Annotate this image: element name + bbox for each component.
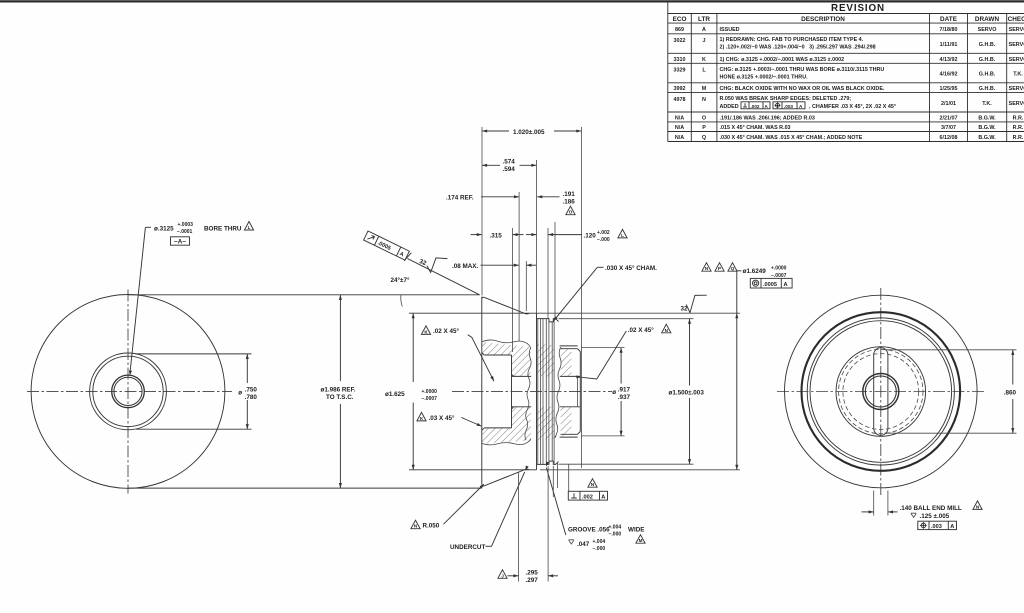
slot top ball end — [874, 348, 888, 355]
svg-text:M: M — [639, 538, 643, 543]
cylinder dia 1.625 top line + extension — [409, 312, 537, 314]
svg-text:ø1.625: ø1.625 — [385, 391, 405, 398]
svg-text:.02 X 45°: .02 X 45° — [628, 326, 654, 334]
dimension dia 1.625 left — [385, 313, 437, 470]
svg-text:−A−: −A− — [174, 238, 186, 245]
extension lines above section — [482, 127, 581, 468]
svg-text:ø1.986 REF.: ø1.986 REF. — [321, 387, 356, 394]
svg-text:A: A — [950, 524, 954, 530]
svg-text:O: O — [702, 116, 706, 122]
svg-text:.015 X 45° CHAM. WAS R.03: .015 X 45° CHAM. WAS R.03 — [720, 125, 791, 131]
bore lines left body — [512, 375, 532, 377]
svg-text:GROOVE .056: GROOVE .056 — [568, 527, 610, 534]
svg-text:N: N — [702, 97, 706, 103]
dimension dia 1.500 — [559, 319, 705, 465]
right view bore chamfer circle — [863, 374, 899, 410]
svg-text:ø1.500±.003: ø1.500±.003 — [669, 390, 705, 397]
slot right edge — [887, 355, 889, 428]
chamfer callout .02 X 45 left — [421, 326, 495, 382]
svg-text:K: K — [702, 57, 706, 63]
svg-text:3992: 3992 — [674, 86, 686, 92]
svg-text:.780: .780 — [245, 394, 258, 401]
flange left face x=536.5 — [536, 313, 538, 470]
svg-text:LTR: LTR — [698, 16, 710, 23]
svg-text:−.000: −.000 — [597, 237, 610, 243]
left view vertical centerline — [127, 290, 129, 494]
svg-text:.08 MAX.: .08 MAX. — [452, 263, 478, 270]
svg-text:P: P — [702, 125, 706, 131]
svg-text:G.H.B.: G.H.B. — [979, 42, 996, 48]
svg-text:.594: .594 — [503, 166, 516, 173]
svg-text:.030 X 45° CHAM. WAS .015 X 45: .030 X 45° CHAM. WAS .015 X 45° CHAM.; A… — [720, 135, 863, 141]
dimension .860 — [885, 350, 1017, 433]
svg-text:G.H.B.: G.H.B. — [979, 86, 996, 92]
svg-text:.860: .860 — [1004, 390, 1017, 397]
REVISION table — [668, 1, 1024, 142]
svg-text:T.K.: T.K. — [982, 101, 992, 107]
table rows — [674, 27, 1024, 141]
flange dia 1.500 bottom surface — [537, 461, 559, 464]
svg-text:, CHAMFER .03 X 45°, 2X .02 X: , CHAMFER .03 X 45°, 2X .02 X 45° — [809, 104, 896, 110]
chamfer callout .02 X 45 right — [576, 324, 671, 379]
svg-text:BORE THRU: BORE THRU — [204, 226, 242, 233]
svg-text:J: J — [703, 38, 706, 44]
svg-text:REVISION: REVISION — [831, 3, 885, 14]
dimension .174 REF — [446, 195, 519, 202]
sheet top border — [0, 0, 1024, 2]
dia 1.6249 callout — [735, 266, 792, 470]
dimension dia .917/.937 — [581, 348, 631, 436]
right view outer circle dia 1.986 — [785, 295, 978, 488]
dimension .140 BALL END MILL — [862, 501, 983, 530]
projection line top (1.986 extension / 24deg reference) — [128, 294, 480, 296]
svg-text:+.002: +.002 — [597, 230, 610, 236]
svg-text:G.H.B.: G.H.B. — [979, 57, 996, 63]
svg-text:.125 ±.005: .125 ±.005 — [920, 513, 950, 520]
dimension .574/.594 — [482, 158, 537, 172]
counterbore window — [482, 353, 514, 431]
left view circle dia .750 — [93, 356, 163, 426]
svg-text:.750: .750 — [245, 387, 258, 394]
cone bottom surface — [485, 469, 529, 485]
section hatch left body lower — [482, 407, 531, 444]
svg-text:N/A: N/A — [675, 116, 684, 122]
left view bore chamfer circle — [112, 375, 145, 408]
svg-text:ø.3125: ø.3125 — [154, 226, 174, 233]
svg-text:.191/.186 WAS .206/.196; ADDED: .191/.186 WAS .206/.196; ADDED R.03 — [720, 116, 815, 122]
section hatch center band lower — [537, 407, 554, 441]
dimension 1.020+-.005 — [482, 129, 581, 136]
svg-text:−.000: −.000 — [609, 531, 622, 537]
bore callout text — [154, 222, 242, 235]
svg-text:2/1/01: 2/1/01 — [941, 101, 956, 107]
svg-text:3329: 3329 — [674, 68, 686, 74]
right view vertical centerline — [880, 288, 882, 495]
left face of cone body — [482, 297, 485, 486]
table grid — [668, 1, 1024, 142]
svg-text:7/18/80: 7/18/80 — [940, 27, 958, 33]
chamfer callout .030 X 45 — [552, 263, 737, 323]
svg-text:.297: .297 — [526, 577, 539, 584]
section hatch center band upper — [537, 344, 554, 377]
dimension .315 — [471, 232, 524, 239]
svg-text:UNDERCUT: UNDERCUT — [450, 544, 485, 551]
right view horizontal centerline — [777, 391, 985, 393]
svg-text:N/A: N/A — [675, 125, 684, 131]
svg-text:ECO: ECO — [673, 16, 687, 23]
right body bottom faces — [560, 436, 578, 438]
svg-text:Q: Q — [702, 135, 706, 141]
svg-text:3/7/07: 3/7/07 — [941, 125, 956, 131]
svg-text:WIDE: WIDE — [628, 527, 644, 534]
svg-text:.917: .917 — [618, 387, 631, 394]
svg-text:ø1.6249: ø1.6249 — [743, 268, 767, 275]
slot extension lines below — [873, 491, 875, 516]
section hatch right body lower — [561, 407, 572, 436]
section centerline — [452, 391, 612, 393]
break line right body (wavy) — [555, 347, 561, 437]
right view circle dia 1.625 thick — [802, 312, 961, 471]
left view horizontal centerline — [27, 390, 232, 392]
svg-text:.574: .574 — [503, 158, 516, 165]
svg-text:L: L — [248, 225, 251, 230]
svg-text:+.0003: +.0003 — [178, 222, 194, 228]
svg-text:869: 869 — [675, 27, 684, 33]
left view bore circle dia .3125 — [114, 377, 142, 405]
perpendicularity FCF — [568, 464, 607, 500]
GROOVE callout — [545, 461, 645, 551]
svg-text:SERVO: SERVO — [1009, 101, 1024, 107]
svg-text:3310: 3310 — [674, 57, 686, 63]
svg-text:−.0007: −.0007 — [422, 396, 438, 402]
chamfer callout .03 X 45 left — [417, 412, 483, 427]
svg-text:Q: Q — [731, 266, 735, 271]
svg-text:SERVO: SERVO — [978, 27, 997, 33]
svg-text:.120: .120 — [584, 232, 597, 239]
svg-text:−.0001: −.0001 — [177, 229, 193, 235]
dia 1.625 extension to right for 1.6249 dim — [537, 312, 741, 314]
right view chamfer circle — [810, 321, 952, 463]
right view bore circle — [865, 376, 896, 407]
svg-text:4/16/92: 4/16/92 — [940, 72, 958, 78]
svg-text:.003: .003 — [784, 104, 793, 109]
right body right face — [579, 352, 581, 432]
svg-text:P: P — [718, 266, 721, 271]
rotated runout feature control frame .0005 A — [363, 231, 411, 262]
svg-text:1) CHG: ø.3125 +.0002/−.0001 W: 1) CHG: ø.3125 +.0002/−.0001 WAS ø.3125 … — [720, 57, 845, 63]
svg-text:B.G.W.: B.G.W. — [978, 135, 996, 141]
svg-text:HONE ø.3125 +.0002/−.0001 THRU: HONE ø.3125 +.0002/−.0001 THRU. — [720, 75, 809, 81]
svg-text:.191: .191 — [563, 191, 576, 198]
svg-text:DATE: DATE — [940, 16, 958, 23]
svg-text:3022: 3022 — [674, 38, 686, 44]
svg-text:R.050: R.050 — [423, 523, 440, 530]
left view circle dia .780 — [90, 353, 167, 430]
cone top surface — [482, 297, 529, 314]
svg-text:6/12/08: 6/12/08 — [940, 135, 958, 141]
left view outer circle dia 1.986 — [31, 295, 225, 489]
dimension .295/.297 — [498, 466, 558, 584]
svg-text:.140 BALL END MILL: .140 BALL END MILL — [900, 505, 962, 512]
svg-text:.047: .047 — [577, 541, 590, 548]
dimension .191/.186 — [537, 191, 575, 215]
groove wall extension stubs below part — [552, 466, 554, 497]
svg-text:+.004: +.004 — [593, 539, 606, 545]
svg-text:+.004: +.004 — [609, 524, 622, 530]
svg-text:2/21/07: 2/21/07 — [940, 116, 958, 122]
svg-text:B.G.W.: B.G.W. — [978, 125, 996, 131]
svg-text:R.R.: R.R. — [1013, 135, 1024, 141]
svg-text:DRAWN: DRAWN — [975, 16, 1000, 23]
svg-text:CHECK: CHECK — [1008, 16, 1024, 23]
svg-text:TO T.S.C.: TO T.S.C. — [326, 394, 354, 401]
svg-text:1.020±.005: 1.020±.005 — [513, 129, 545, 136]
svg-text:SERVO: SERVO — [1009, 27, 1024, 33]
svg-text:−.0007: −.0007 — [771, 273, 787, 279]
surface finish 32 on cone line — [418, 258, 447, 273]
right view circle dia 1.500 — [807, 318, 954, 465]
surface finish 32 on 1.625 extension — [681, 295, 707, 313]
cylinder dia 1.625 bottom line + extension — [409, 469, 537, 471]
svg-text:.315: .315 — [490, 232, 503, 239]
svg-text:.003: .003 — [931, 524, 942, 530]
flange dia 1.500 top surface — [537, 319, 559, 322]
datum -A- — [171, 237, 190, 246]
svg-text:R.R.: R.R. — [1013, 116, 1024, 122]
right view dashed groove circles — [839, 349, 923, 433]
svg-text:SERVO: SERVO — [1009, 42, 1024, 48]
bore callout leader — [128, 227, 151, 375]
dimension .120 +.002/-.000 — [526, 229, 627, 243]
svg-text:O: O — [569, 210, 573, 215]
svg-text:.02 X 45°: .02 X 45° — [433, 327, 459, 335]
R.050 callout — [411, 483, 485, 530]
svg-text:1) REDRAWN: CHG. FAB TO PURCHA: 1) REDRAWN: CHG. FAB TO PURCHASED ITEM T… — [720, 37, 864, 43]
UNDERCUT callout — [450, 466, 529, 551]
slot floor edge seen through bore — [577, 376, 579, 406]
svg-text:ø: ø — [612, 389, 616, 396]
svg-text:A: A — [601, 495, 605, 501]
svg-text:.002: .002 — [582, 495, 593, 501]
svg-text:4978: 4978 — [674, 97, 686, 103]
break line left body (wavy) — [482, 340, 531, 348]
svg-text:32: 32 — [681, 306, 689, 313]
svg-text:.0005: .0005 — [763, 282, 777, 288]
section hatch left body upper — [482, 342, 531, 376]
svg-text:ø: ø — [238, 389, 242, 396]
svg-text:24°±7°: 24°±7° — [391, 276, 410, 284]
svg-text:+.0000: +.0000 — [422, 389, 438, 395]
cone angle extension line with runout FCF — [408, 259, 480, 295]
svg-text:SERVO: SERVO — [1009, 86, 1024, 92]
svg-text:.002: .002 — [751, 104, 760, 109]
svg-text:R.050 WAS BREAK SHARP EDGES; D: R.050 WAS BREAK SHARP EDGES; DELETED .27… — [720, 96, 852, 102]
svg-text:ISSUED: ISSUED — [720, 27, 740, 33]
svg-text:M: M — [702, 86, 707, 92]
svg-text:A: A — [784, 282, 788, 288]
svg-text:T.K.: T.K. — [1013, 72, 1023, 78]
svg-text:CHG: ø.3125 +.0003/−.0001 THRU: CHG: ø.3125 +.0003/−.0001 THRU WAS BORE … — [720, 67, 885, 73]
svg-text:R.R.: R.R. — [1013, 125, 1024, 131]
svg-text:.186: .186 — [563, 199, 576, 206]
svg-text:4/13/92: 4/13/92 — [940, 57, 958, 63]
svg-text:.295: .295 — [526, 570, 539, 577]
svg-text:ADDED: ADDED — [720, 104, 739, 110]
svg-text:.937: .937 — [618, 394, 631, 401]
svg-text:L: L — [621, 233, 624, 238]
svg-text:.030 X 45° CHAM.: .030 X 45° CHAM. — [605, 264, 657, 272]
svg-text:1/25/95: 1/25/95 — [940, 86, 958, 92]
svg-text:A: A — [702, 27, 706, 33]
svg-text:+.0000: +.0000 — [771, 266, 787, 272]
svg-text:.03 X 45°: .03 X 45° — [429, 414, 455, 422]
svg-text:B.G.W.: B.G.W. — [978, 116, 996, 122]
svg-text:1/11/91: 1/11/91 — [940, 42, 958, 48]
svg-text:J: J — [501, 573, 504, 578]
slot left edge — [873, 355, 875, 428]
svg-text:.174 REF.: .174 REF. — [446, 195, 474, 202]
table header — [673, 16, 1024, 23]
svg-text:SERVO: SERVO — [1009, 57, 1024, 63]
dimension dia 1.986 REF — [321, 295, 356, 488]
bore callout delta L — [244, 222, 253, 231]
row N inline feature control frames — [741, 102, 805, 109]
dimension dia .750/.780 — [136, 354, 257, 429]
svg-text:DESCRIPTION: DESCRIPTION — [801, 16, 845, 23]
svg-text:G.H.B.: G.H.B. — [979, 72, 996, 78]
svg-text:2) .120+.002/−0 WAS .120+.004/: 2) .120+.002/−0 WAS .120+.004/−0 3) .295… — [720, 45, 876, 51]
projection line bottom — [128, 487, 482, 489]
svg-text:CHG: BLACK OXIDE WITH NO WAX O: CHG: BLACK OXIDE WITH NO WAX OR OIL WAS … — [720, 86, 885, 92]
right view circle dia .937 — [836, 347, 926, 437]
right body top faces dia .937/.917 — [560, 345, 578, 347]
center band vertical lines — [538, 319, 554, 465]
bore lines right body — [560, 375, 581, 377]
svg-text:−.000: −.000 — [593, 546, 606, 552]
dimension .08 MAX — [452, 263, 536, 270]
svg-text:N/A: N/A — [675, 135, 684, 141]
section hatch right body upper — [561, 348, 572, 377]
slot bottom ball end — [874, 428, 888, 435]
